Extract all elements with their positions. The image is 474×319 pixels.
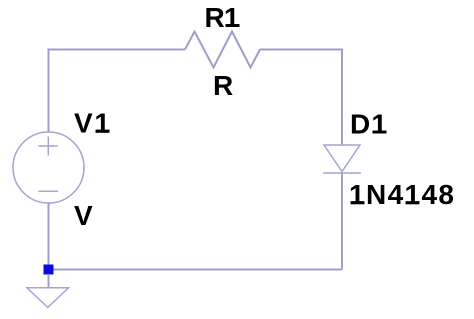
wire stub (node to ground symbol) xyxy=(48,274,50,288)
svg-text:D1: D1 xyxy=(350,108,387,139)
svg-text:R1: R1 xyxy=(205,2,240,33)
svg-text:R: R xyxy=(213,70,233,101)
svg-text:V1: V1 xyxy=(74,108,110,139)
svg-text:V: V xyxy=(74,200,93,231)
ground xyxy=(27,288,69,308)
wire right-bottom vertical (D1 cathode to bottom rail) xyxy=(341,173,343,270)
node junction (ground net, blue square) xyxy=(44,265,54,275)
wire left-bottom vertical (V1 minus terminal to ground node) xyxy=(48,203,50,266)
wire top-left horizontal (node N001 to R1 left lead) xyxy=(49,49,186,51)
voltage source V1 xyxy=(13,132,84,203)
wire left vertical (top corner to V1 plus terminal) xyxy=(48,49,50,133)
resistor R1 xyxy=(185,32,260,68)
diode D1 xyxy=(323,145,361,173)
wire right vertical (node N002 to D1 anode) xyxy=(341,49,343,146)
wire top-right horizontal (R1 right lead to node N002) xyxy=(260,49,342,51)
wire bottom horizontal (ground node to D1 branch) xyxy=(49,269,343,271)
